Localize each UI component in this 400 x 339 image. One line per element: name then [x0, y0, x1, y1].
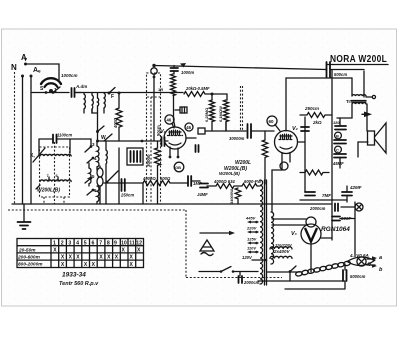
- svg-text:C: C: [336, 148, 339, 153]
- svg-text:X,: X,: [30, 153, 35, 159]
- svg-text:RGN1064: RGN1064: [321, 226, 350, 233]
- svg-text:20kΩ-0.5MF: 20kΩ-0.5MF: [185, 86, 210, 91]
- svg-text:V₃: V₃: [291, 231, 297, 237]
- svg-text:1: 1: [53, 240, 56, 246]
- svg-text:5000cm: 5000cm: [350, 274, 366, 279]
- svg-text:4.5V0.6A: 4.5V0.6A: [349, 253, 369, 258]
- svg-text:34000W: 34000W: [229, 189, 234, 204]
- svg-text:445V: 445V: [245, 216, 256, 221]
- svg-text:12: 12: [136, 240, 142, 246]
- svg-text:1933-34: 1933-34: [62, 272, 86, 279]
- svg-text:V₂: V₂: [292, 126, 298, 132]
- svg-text:A: A: [21, 53, 27, 62]
- svg-text:W200L(B): W200L(B): [219, 171, 240, 176]
- svg-text:2000cm: 2000cm: [243, 280, 260, 285]
- svg-text:11: 11: [129, 240, 135, 246]
- svg-text:1100cm: 1100cm: [57, 133, 72, 138]
- svg-text:45MF: 45MF: [332, 161, 344, 166]
- svg-text:F: F: [111, 94, 114, 100]
- svg-text:200-600m: 200-600m: [17, 255, 41, 261]
- svg-text:A.dm: A.dm: [75, 84, 87, 89]
- svg-text:GB: GB: [175, 165, 181, 170]
- svg-text:2: 2: [61, 240, 64, 246]
- svg-text:Aₑ: Aₑ: [33, 67, 41, 74]
- svg-text:220V: 220V: [246, 226, 257, 231]
- svg-text:7MF: 7MF: [322, 193, 331, 198]
- svg-text:250cm: 250cm: [120, 193, 134, 198]
- svg-text:Tr: Tr: [346, 99, 351, 104]
- svg-text:J4MF: J4MF: [197, 192, 208, 197]
- svg-text:46: 46: [167, 118, 172, 123]
- svg-text:2000cm: 2000cm: [309, 206, 326, 211]
- svg-text:V₁: V₁: [160, 129, 166, 135]
- svg-text:8: 8: [107, 240, 110, 246]
- svg-text:0.25MΩ: 0.25MΩ: [204, 107, 209, 122]
- svg-text:250cm: 250cm: [304, 106, 319, 111]
- svg-text:W200L(B): W200L(B): [37, 188, 60, 194]
- svg-text:20-50m: 20-50m: [18, 247, 36, 253]
- svg-text:42MF: 42MF: [349, 185, 362, 190]
- svg-text:9: 9: [114, 240, 117, 246]
- svg-text:46: 46: [186, 125, 191, 130]
- svg-text:6: 6: [92, 240, 95, 246]
- svg-text:5: 5: [84, 240, 87, 246]
- svg-text:4: 4: [76, 240, 79, 246]
- svg-text:2x400V: 2x400V: [273, 249, 291, 254]
- svg-text:2kΩ: 2kΩ: [312, 120, 322, 125]
- svg-text:7: 7: [99, 240, 102, 246]
- svg-text:800-2000m: 800-2000m: [18, 262, 43, 268]
- svg-text:180: 180: [333, 120, 340, 125]
- svg-text:125V: 125V: [247, 237, 257, 242]
- svg-text:110V: 110V: [247, 246, 256, 251]
- svg-text:B: B: [336, 134, 339, 139]
- svg-text:30000m: 30000m: [229, 136, 245, 141]
- svg-text:N: N: [11, 63, 17, 72]
- svg-text:NORA W200L: NORA W200L: [330, 53, 387, 64]
- svg-text:1000m: 1000m: [181, 70, 194, 75]
- svg-text:60: 60: [269, 119, 275, 124]
- svg-text:1000cm: 1000cm: [61, 73, 78, 78]
- svg-text:a: a: [379, 255, 382, 261]
- svg-text:0.1MΩW: 0.1MΩW: [218, 106, 223, 122]
- svg-text:4000Ω 634: 4000Ω 634: [213, 179, 235, 184]
- svg-text:500cm: 500cm: [334, 72, 347, 77]
- svg-text:3: 3: [68, 240, 71, 246]
- svg-text:Tentr 560 R.p.v: Tentr 560 R.p.v: [59, 281, 99, 287]
- svg-text:120V: 120V: [242, 255, 253, 260]
- svg-text:10: 10: [121, 240, 127, 246]
- svg-text:600Ω: 600Ω: [160, 176, 171, 181]
